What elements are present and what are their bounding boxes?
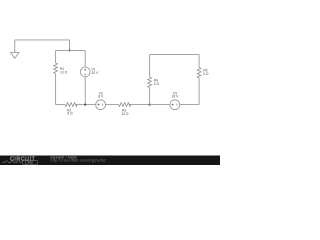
label V3 16 V	[172, 91, 180, 98]
label R2 5 Ohm	[67, 108, 73, 115]
svg-text:4 Ω: 4 Ω	[154, 82, 160, 86]
ground	[11, 53, 19, 59]
voltage source V1	[80, 67, 90, 77]
logo waveform	[2, 161, 22, 163]
wire loop1 right lower	[84, 77, 86, 105]
resistor R5	[197, 68, 201, 79]
logo LAB	[23, 161, 38, 165]
wire bottom rail R3 to junction	[129, 104, 150, 106]
wire loop2 bottom left segment	[150, 104, 170, 106]
wire bottom rail V2 to R3	[106, 104, 119, 106]
wire ground stub vertical	[14, 40, 16, 53]
svg-text:20 V: 20 V	[92, 71, 100, 75]
wire loop1 left upper	[55, 50, 57, 63]
node junction V1 bottom	[84, 104, 86, 106]
label R3 10 Ohm	[121, 109, 129, 116]
label R5 6 Ohm	[203, 69, 209, 76]
wire loop2 bottom right segment	[180, 104, 199, 106]
label R1 10 Ohm	[60, 67, 68, 74]
svg-text:8 V: 8 V	[98, 95, 104, 99]
resistor R3	[119, 103, 131, 107]
watermark text	[51, 155, 106, 162]
wire loop1 top rail	[56, 49, 86, 51]
wire loop2 right upper	[198, 55, 200, 68]
watermark bar	[0, 156, 220, 166]
wire bottom rail left segment	[56, 104, 65, 106]
svg-text:5 Ω: 5 Ω	[67, 112, 73, 116]
label V1 20 V	[92, 68, 100, 76]
wire stub down to loop1 top rail	[69, 40, 71, 51]
svg-text:http://circuitlab.com/c/g2ux5d: http://circuitlab.com/c/g2ux5d	[51, 159, 106, 163]
svg-text:16 V: 16 V	[172, 95, 180, 99]
wire loop2 left upper	[149, 55, 151, 77]
svg-text:LAB: LAB	[25, 161, 33, 165]
label R4 4 Ohm	[154, 79, 160, 86]
svg-text:10 Ω: 10 Ω	[60, 71, 68, 75]
resistor R1	[54, 63, 58, 74]
wire bottom rail R2 to V2	[76, 104, 96, 106]
wire loop2 top rail	[150, 54, 200, 56]
node junction R4 bottom	[149, 104, 151, 106]
wire loop1 left lower	[55, 74, 57, 105]
voltage source V3	[170, 100, 180, 110]
svg-text:6 Ω: 6 Ω	[203, 72, 209, 76]
resistor R4	[148, 77, 152, 88]
wire loop2 right lower	[198, 78, 200, 105]
node junction top rail	[68, 49, 70, 51]
label V2 8 V	[98, 91, 104, 98]
wire loop1 right upper	[84, 50, 86, 67]
wire top horizontal	[15, 39, 70, 41]
svg-text:10 Ω: 10 Ω	[121, 112, 129, 116]
voltage source V2	[96, 100, 106, 110]
wire loop2 left lower	[149, 88, 151, 105]
resistor R2	[65, 103, 77, 107]
